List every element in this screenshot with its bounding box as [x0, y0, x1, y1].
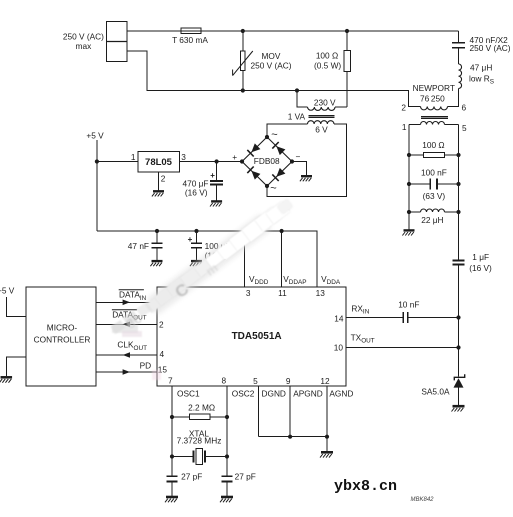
ground AGND — [320, 452, 333, 457]
svg-text:+: + — [188, 235, 193, 244]
svg-text:250 V (AC): 250 V (AC) — [470, 43, 511, 53]
svg-text:10: 10 — [334, 343, 344, 353]
node net1 100nF right — [456, 182, 460, 186]
capacitor 27 pF left — [166, 472, 202, 482]
watermark gray tail — [107, 298, 157, 337]
node AGND join — [325, 435, 329, 439]
svg-text:+: + — [210, 171, 215, 180]
svg-text:OSC1: OSC1 — [177, 389, 200, 399]
capacitor 470 uF — [183, 171, 224, 197]
ground 100uF — [190, 261, 202, 266]
wire 2.2M resistor — [172, 416, 227, 418]
svg-text:5: 5 — [462, 123, 467, 133]
wire MOV branch — [242, 31, 244, 91]
svg-text:low RS: low RS — [469, 73, 494, 85]
svg-text:NEWPORT: NEWPORT — [413, 83, 455, 93]
node net1 100ohm right — [456, 153, 460, 157]
wire APGND pin9 — [289, 386, 291, 437]
svg-text:27 pF: 27 pF — [181, 472, 202, 482]
svg-text:100 nF: 100 nF — [421, 167, 447, 177]
svg-text:OSC2: OSC2 — [232, 389, 255, 399]
node net1 22uH left — [407, 210, 411, 214]
svg-text:78L05: 78L05 — [145, 157, 173, 168]
resistor 100 ohm 0.5W — [314, 50, 351, 71]
svg-text:+5 V: +5 V — [86, 130, 104, 140]
svg-text:6 V: 6 V — [315, 124, 328, 134]
microcontroller U2 — [26, 287, 96, 386]
inductor 22 uH — [421, 209, 445, 225]
crystal XTAL 7.3728 MHz — [177, 429, 222, 465]
svg-text:(63 V): (63 V) — [423, 191, 446, 201]
wire 6V secondary left to bridge top — [267, 124, 308, 137]
node OSC2 xtal — [225, 454, 229, 458]
svg-text:3: 3 — [246, 288, 251, 298]
node bridge top — [265, 135, 269, 139]
resistor 100 ohm network — [422, 140, 444, 158]
transformer 230V/6V 1VA — [288, 97, 336, 134]
wire mains neutral from connector — [127, 51, 421, 107]
label VDDA — [321, 274, 341, 286]
svg-text:APGND: APGND — [293, 389, 323, 399]
diode top-right — [272, 142, 285, 155]
ground 78L05 — [152, 191, 164, 196]
ground SA5.0A — [452, 406, 465, 411]
svg-text:max: max — [76, 41, 93, 51]
label DATA_IN with arrow — [119, 290, 147, 306]
wire +5V distribution line — [97, 231, 317, 287]
svg-text:(16 V): (16 V) — [469, 263, 492, 273]
ground MCU — [0, 377, 12, 382]
capacitor 470 nF/X2 — [452, 35, 511, 53]
svg-text:47 nF: 47 nF — [128, 241, 149, 251]
wire OSC1 pin7 — [171, 386, 173, 496]
svg-text:VDDAP: VDDAP — [283, 274, 306, 286]
ground bridge minus — [300, 176, 312, 181]
wire cap to coil — [458, 49, 460, 65]
svg-text:AGND: AGND — [329, 389, 353, 399]
svg-text:(16 V): (16 V) — [185, 187, 208, 197]
node bridge right — [290, 159, 294, 163]
svg-text:100 Ω: 100 Ω — [316, 50, 338, 60]
node bridge left — [240, 159, 244, 163]
wire 10nF to rail — [409, 317, 459, 319]
capacitor 100 nF 63V — [421, 167, 447, 201]
wire +5V vertical — [96, 140, 98, 231]
wire top mains live rail — [127, 30, 459, 32]
resistor 2.2 Mohm — [188, 403, 215, 420]
svg-text:DGND: DGND — [262, 389, 286, 399]
wire DGND pin5 — [257, 386, 259, 437]
svg-text:FDB08: FDB08 — [254, 156, 280, 166]
connector mains input — [107, 22, 128, 62]
svg-text:7.3728 MHz: 7.3728 MHz — [177, 436, 222, 446]
svg-text:2: 2 — [159, 320, 164, 330]
svg-text:1 μF: 1 μF — [472, 252, 489, 262]
label VDDAP — [283, 274, 306, 286]
watermark pink patch — [112, 325, 138, 333]
svg-text:76 250: 76 250 — [420, 93, 445, 103]
capacitor 1 uF 16V — [453, 252, 492, 273]
wire 78L05 ground stem — [158, 172, 160, 191]
wire 78L05 output to +5V rail — [97, 161, 138, 163]
wire 100 ohm damping branch — [346, 31, 348, 107]
node TX rail — [456, 345, 460, 349]
node 470uF top — [215, 159, 219, 163]
capacitor 27 pF right — [221, 472, 255, 482]
svg-text:~: ~ — [271, 129, 277, 141]
svg-text:100 Ω: 100 Ω — [422, 140, 444, 150]
fuse T 630 mA — [181, 28, 201, 33]
svg-text:14: 14 — [334, 314, 344, 324]
svg-text:8: 8 — [221, 376, 226, 386]
svg-text:250 V (AC): 250 V (AC) — [63, 31, 104, 41]
node 100uF top — [194, 229, 198, 233]
TVS diode SA5.0A — [421, 374, 464, 396]
svg-text:−: − — [295, 152, 300, 162]
svg-text:2.2 MΩ: 2.2 MΩ — [188, 403, 215, 413]
svg-text:MBK842: MBK842 — [411, 497, 435, 503]
node OSC1 xtal — [170, 454, 174, 458]
label DATA_OUT with arrow — [112, 310, 147, 328]
diode bottom-right — [272, 168, 285, 181]
svg-text:1: 1 — [402, 122, 407, 132]
bridge rectifier FDB08 — [232, 129, 300, 195]
svg-text:10 nF: 10 nF — [398, 300, 419, 310]
node RX rail — [456, 315, 460, 319]
wire VDDAP drop — [281, 231, 283, 287]
node VDDD — [243, 229, 247, 233]
regulator 78L05 — [131, 152, 186, 184]
varistor MOV 250 V — [233, 51, 292, 76]
wire bridge minus to ground — [292, 162, 307, 176]
node VDDAP — [280, 229, 284, 233]
node APGND join — [288, 435, 292, 439]
wire DATA_IN — [96, 301, 157, 303]
svg-text:4: 4 — [160, 349, 165, 359]
svg-text:9: 9 — [286, 376, 291, 386]
wire 6V secondary right loop to bridge bottom — [267, 124, 347, 197]
watermark diagonal white stripe — [0, 0, 513, 1]
svg-text:CLKOUT: CLKOUT — [117, 340, 147, 352]
wire MCU ground — [6, 357, 26, 376]
svg-text:RXIN: RXIN — [351, 304, 369, 316]
node 78L05 out — [95, 159, 99, 163]
node OSC2 2.2M — [225, 415, 229, 419]
diode bottom-left — [247, 167, 260, 180]
transformer NEWPORT 76250 — [401, 83, 467, 133]
wire 22uH network — [409, 211, 459, 213]
wire MCU +5V supply — [6, 297, 26, 317]
svg-text:CONTROLLER: CONTROLLER — [34, 334, 91, 344]
capacitor 100 uF — [188, 235, 231, 260]
capacitor 47 nF — [128, 241, 163, 251]
svg-text:PD: PD — [140, 360, 152, 370]
wire NEWPORT secondary left rail — [408, 125, 410, 230]
label PD with arrow — [123, 360, 152, 375]
svg-text:VDDD: VDDD — [249, 274, 269, 286]
capacitor 10 nF — [398, 300, 419, 324]
wire 100nF network — [409, 183, 459, 185]
svg-text:TDA5051A: TDA5051A — [232, 331, 282, 342]
node 230V primary left — [295, 88, 299, 92]
node net1 100ohm left — [407, 153, 411, 157]
wire DATA_OUT — [96, 323, 157, 325]
svg-text:230 V: 230 V — [314, 97, 336, 107]
wire coil to transformer pin 6 — [448, 89, 459, 107]
wire 47nF cap stem — [156, 231, 158, 260]
svg-text:5: 5 — [253, 376, 258, 386]
wire TX_OUT to rail — [346, 347, 459, 349]
svg-text:+5 V: +5 V — [0, 285, 15, 295]
label VDDD — [249, 274, 269, 286]
node MOV top — [241, 29, 245, 33]
svg-text:TXOUT: TXOUT — [351, 333, 375, 345]
ground NEWPORT pin1 rail — [402, 230, 414, 235]
svg-text:27 pF: 27 pF — [235, 472, 256, 482]
svg-text:47 μH: 47 μH — [470, 63, 492, 73]
svg-text:~: ~ — [270, 183, 276, 195]
node MOV bottom — [241, 88, 245, 92]
ground OSC1 — [165, 497, 178, 502]
wire RX_IN to 10nF — [346, 317, 403, 319]
wire ground join DGND-APGND-AGND — [258, 436, 327, 438]
svg-text:1: 1 — [131, 152, 136, 162]
svg-text:+: + — [232, 152, 237, 162]
svg-text:6: 6 — [462, 102, 467, 112]
ground 47nF — [150, 261, 162, 266]
wire 100 ohm network — [409, 154, 459, 156]
wire right rail top to cap — [458, 31, 460, 42]
svg-text:11: 11 — [278, 288, 287, 298]
svg-text:(0.5 W): (0.5 W) — [314, 60, 341, 70]
wire 230V primary right to resistor — [335, 106, 347, 108]
wire OSC2 pin8 — [226, 386, 228, 496]
node 100ohm top — [345, 29, 349, 33]
svg-text:12: 12 — [320, 376, 330, 386]
wire crystal — [172, 456, 227, 458]
node net1 22uH right — [456, 210, 460, 214]
svg-text:13: 13 — [316, 288, 326, 298]
wire 100uF cap stem — [196, 231, 198, 260]
svg-text:250 V (AC): 250 V (AC) — [251, 61, 292, 71]
wire NEWPORT secondary right rail — [458, 125, 460, 406]
node bridge bottom — [265, 184, 269, 188]
svg-text:T 630 mA: T 630 mA — [172, 35, 208, 45]
wire VDDD drop — [244, 231, 246, 287]
svg-text:1 VA: 1 VA — [288, 111, 306, 121]
watermark gray ghost letters — [171, 279, 193, 302]
svg-text:SA5.0A: SA5.0A — [421, 387, 450, 397]
svg-text:VDDA: VDDA — [321, 274, 341, 286]
svg-text:3: 3 — [181, 152, 186, 162]
ground OSC2 — [220, 497, 233, 502]
diode top-left — [247, 143, 260, 156]
svg-text:2: 2 — [161, 174, 166, 184]
svg-text:MOV: MOV — [262, 51, 281, 61]
svg-text:ybx8.cn: ybx8.cn — [334, 478, 397, 495]
wire CLK_OUT — [96, 354, 157, 356]
node OSC1 2.2M — [170, 415, 174, 419]
label CLK_OUT with arrow — [117, 340, 147, 358]
wire 230V primary left — [297, 91, 308, 108]
node net1 100nF left — [407, 182, 411, 186]
ground 470uF — [210, 201, 222, 206]
svg-text:2: 2 — [401, 102, 406, 112]
svg-text:MICRO-: MICRO- — [47, 322, 78, 332]
wire 470uF cap stem — [216, 162, 218, 201]
IC TDA5051A U1 — [157, 287, 346, 386]
svg-text:22 μH: 22 μH — [421, 215, 443, 225]
inductor 47 uH low Rs — [459, 63, 495, 89]
node 47nF top — [155, 229, 159, 233]
wire AGND pin12 — [326, 386, 328, 451]
wire PD — [96, 371, 157, 373]
svg-text:7: 7 — [168, 376, 173, 386]
wire 78L05 input to bridge plus — [179, 161, 242, 163]
